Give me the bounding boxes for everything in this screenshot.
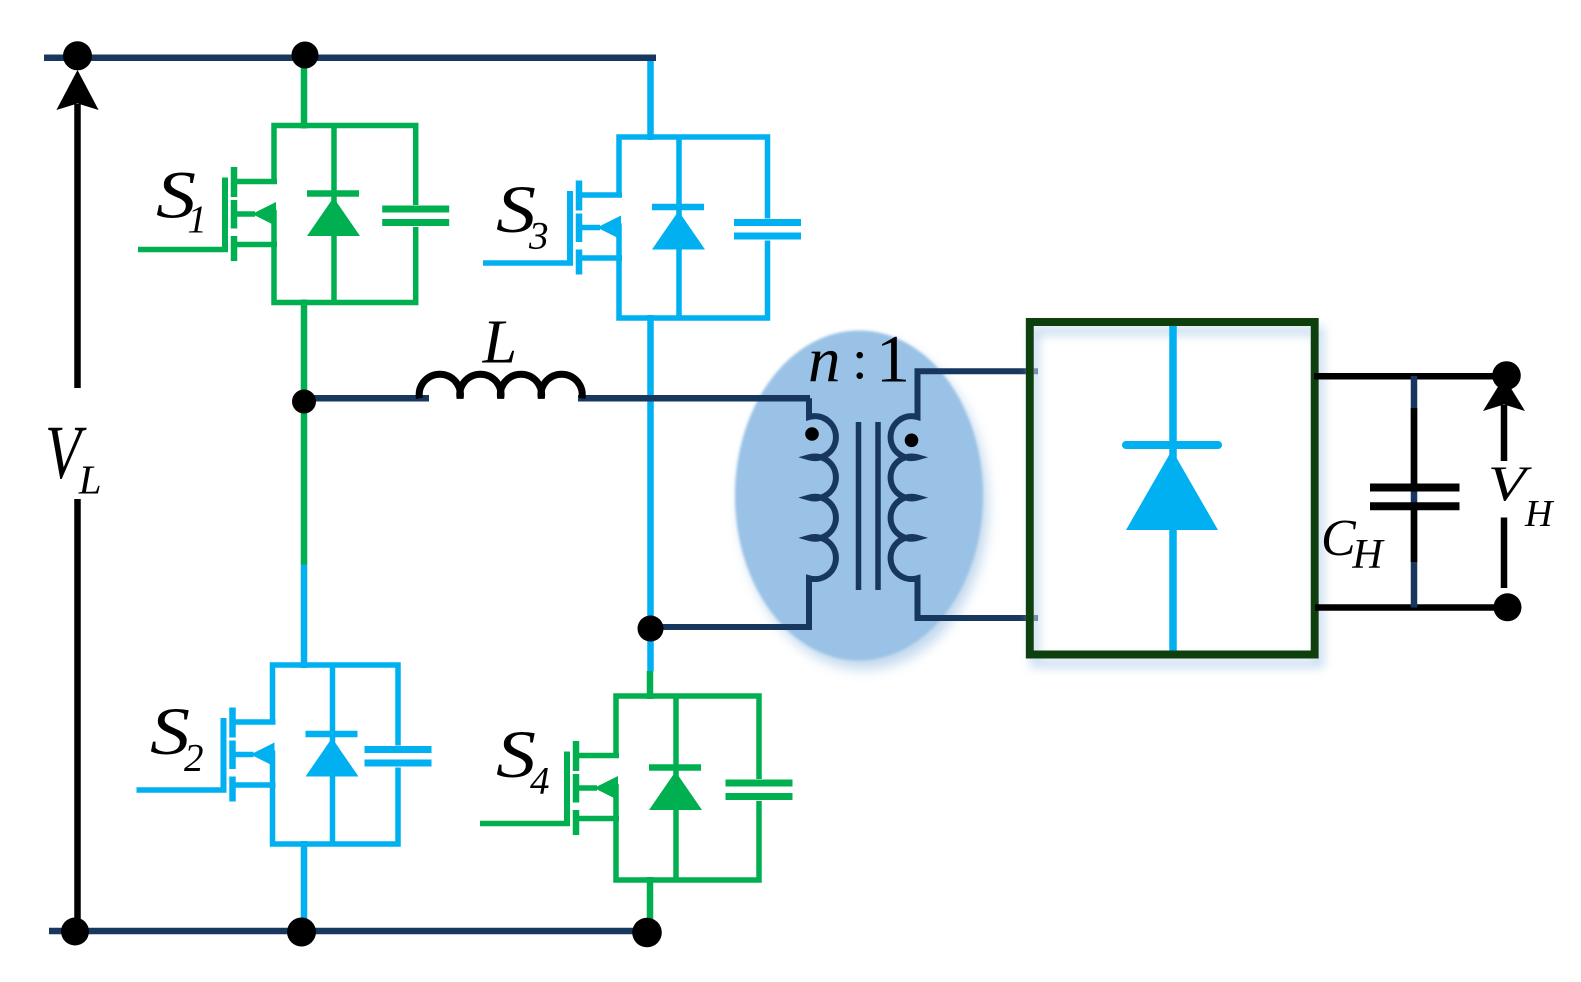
svg-text:n: n: [808, 325, 841, 397]
transistor S3 (MOSFET): [483, 181, 622, 275]
transformer primary winding: [651, 398, 836, 627]
node A junction dot: [292, 390, 316, 414]
body diode of S3: [652, 137, 705, 318]
rectifier diode: [1126, 326, 1218, 651]
wire bottom of S1: [301, 300, 308, 400]
transistor S4 (MOSFET): [480, 741, 619, 835]
svg-text:2: 2: [184, 736, 204, 779]
wire top of S3: [647, 58, 654, 140]
junction dot bottom-left: [61, 918, 89, 946]
switch cell S3 frame: [619, 137, 768, 318]
node B junction dot (S3-S4 midpoint): [638, 616, 664, 642]
snubber capacitor of S2: [365, 750, 432, 764]
junction dot bottom S2: [287, 918, 316, 947]
svg-text:3: 3: [528, 214, 549, 257]
inductor L: [419, 374, 582, 398]
rectifier block: [1030, 322, 1315, 655]
svg-text:1: 1: [187, 198, 207, 241]
wire node A to inductor and transformer primary top: [304, 395, 429, 402]
voltage arrow V_L: [56, 70, 98, 931]
wire rectifier to output +: [1314, 373, 1507, 380]
snubber capacitor of S1: [382, 209, 449, 223]
svg-text:H: H: [1524, 493, 1555, 535]
wire top rail V_L+: [44, 54, 656, 61]
wire top of S2: [301, 564, 308, 669]
body diode of S1: [307, 126, 360, 303]
transformer secondary winding: [891, 371, 1038, 618]
wire bottom of S2: [301, 841, 308, 931]
junction dot top-left: [63, 41, 92, 70]
wire node A down to S2 (green segment): [301, 399, 308, 565]
wire bottom of S4: [647, 877, 654, 931]
svg-text:1: 1: [876, 320, 910, 396]
wire bottom rail V_L-: [49, 928, 658, 935]
wire top of S1: [301, 58, 308, 129]
transistor S2 (MOSFET): [137, 708, 276, 802]
body diode of S2: [306, 665, 359, 844]
svg-text:L: L: [78, 456, 102, 502]
transformer core: [859, 422, 879, 590]
wire bottom of S3: [647, 315, 654, 671]
svg-text:4: 4: [530, 759, 550, 802]
transistor S1 (MOSFET): [138, 167, 277, 261]
svg-text:H: H: [1351, 532, 1385, 578]
wire rectifier to output -: [1315, 604, 1507, 611]
capacitor C_H: [1370, 408, 1460, 562]
body diode of S4: [649, 696, 702, 880]
wire top of S4: [647, 671, 654, 699]
junction dot top S1: [292, 42, 319, 69]
switch cell S2 frame: [273, 665, 399, 844]
junction dot output -: [1494, 593, 1522, 621]
snubber capacitor of S4: [726, 783, 793, 797]
switch cell S1 frame: [274, 126, 416, 303]
phase dot secondary: [905, 434, 919, 448]
transformer highlight ellipse: [735, 331, 983, 661]
phase dot primary: [805, 427, 819, 441]
switch cell S4 frame: [616, 696, 759, 880]
wire capacitor branch: [1411, 376, 1418, 608]
svg-text::: :: [852, 329, 868, 391]
junction dot bottom S4: [632, 918, 662, 948]
snubber capacitor of S3: [734, 223, 801, 237]
wire inductor to transformer primary: [578, 395, 810, 402]
voltage arrow V_H: [1483, 377, 1525, 588]
svg-text:L: L: [482, 309, 517, 377]
junction dot output +: [1492, 361, 1521, 390]
